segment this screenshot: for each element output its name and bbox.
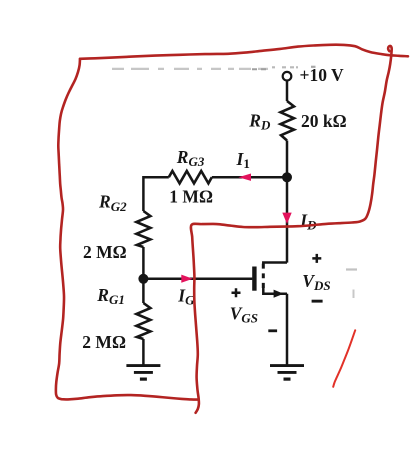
svg-text:RG3: RG3 <box>176 147 205 169</box>
svg-text:I1: I1 <box>236 149 250 171</box>
wire RG3 corner to RG2 <box>142 176 145 211</box>
hand-drawn red diagonal stroke <box>333 330 355 387</box>
wire RD to drain <box>286 141 289 263</box>
source arrow <box>274 290 284 298</box>
ground (source) <box>270 366 304 380</box>
erased caption remnants (faint gray dashes) <box>112 68 268 70</box>
wire RG3 horizontal <box>143 176 287 179</box>
svg-text:2 MΩ: 2 MΩ <box>82 332 126 352</box>
svg-text:VDS: VDS <box>302 271 330 293</box>
svg-text:+10 V: +10 V <box>300 65 345 85</box>
label VDS minus <box>312 300 323 303</box>
resistor RG2 <box>136 211 150 247</box>
node drain junction <box>282 172 292 182</box>
svg-text:2 MΩ: 2 MΩ <box>83 242 127 262</box>
svg-text:RD: RD <box>248 110 271 132</box>
wire terminal to RD <box>286 81 289 101</box>
label VDS plus <box>312 254 321 263</box>
resistor RG3 <box>169 171 212 183</box>
label VGS plus <box>232 288 241 297</box>
current arrow ID <box>282 213 291 224</box>
transistor Q1 NMOS <box>254 263 287 298</box>
wire RG1 to ground <box>142 339 145 366</box>
gate bar <box>252 267 256 291</box>
svg-text:VGS: VGS <box>230 303 258 325</box>
svg-text:20 kΩ: 20 kΩ <box>301 111 347 131</box>
svg-text:RG2: RG2 <box>98 192 127 214</box>
channel dashes <box>262 264 265 288</box>
supply terminal circle <box>283 72 292 81</box>
wire gate <box>143 278 252 281</box>
wire source to ground <box>286 294 289 366</box>
resistor RG1 <box>136 303 150 339</box>
current arrow IG <box>181 275 193 283</box>
ground (left) <box>126 366 160 380</box>
svg-text:1 MΩ: 1 MΩ <box>169 187 213 207</box>
resistor RD <box>281 101 295 141</box>
drain segment <box>263 263 287 265</box>
wire RG2 to RG1 <box>142 247 145 303</box>
source segment <box>263 286 287 294</box>
current arrow I1 <box>238 174 251 181</box>
label VGS minus <box>268 329 277 332</box>
hand-drawn red annotation outline <box>80 45 408 59</box>
svg-text:IG: IG <box>177 286 195 308</box>
node gate junction <box>138 274 148 284</box>
svg-text:ID: ID <box>299 210 317 232</box>
faint gray marks near VDS <box>346 268 357 270</box>
svg-text:RG1: RG1 <box>96 285 125 307</box>
